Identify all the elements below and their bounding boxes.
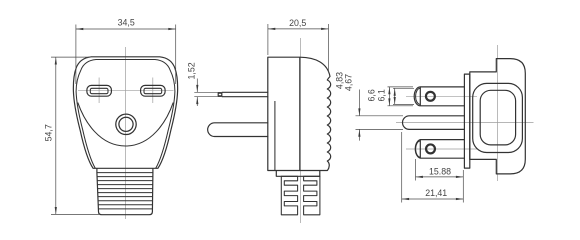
dimension 6,6 <box>366 87 413 106</box>
plug body inner contour view1 <box>76 60 175 169</box>
strain relief ribs view1 <box>97 173 153 209</box>
svg-text:15.88: 15.88 <box>429 167 451 177</box>
strain relief view1 outline <box>97 168 153 214</box>
ext line left 34,5 <box>75 25 77 85</box>
dimension 34,5 <box>76 17 176 84</box>
arrow bottom 6,6 <box>388 98 390 105</box>
dimension 21,41 <box>402 132 464 203</box>
svg-text:54,7: 54,7 <box>44 124 54 141</box>
svg-text:20,5: 20,5 <box>289 18 306 28</box>
seal inner rounded square view3 <box>480 90 515 145</box>
arrow top 6,6 <box>388 87 390 94</box>
arrow lower 4,83 <box>358 129 360 136</box>
arrow top 54,7 <box>55 57 57 64</box>
centerline vertical view1 <box>125 47 127 219</box>
svg-text:6,6: 6,6 <box>366 89 376 101</box>
right slot outer <box>141 85 166 96</box>
arrow right 21,41 <box>456 198 463 200</box>
dim line 15,88 <box>416 176 464 178</box>
ext line top 54,7 <box>51 56 91 58</box>
dim line 34,5 <box>76 28 176 30</box>
ground hole outer circle <box>116 114 136 134</box>
ext line bottom 54,7 <box>51 213 100 215</box>
dimension 54,7 <box>44 57 101 214</box>
ext line right 15,88 / 21,41 plate edge <box>462 170 464 203</box>
ext line top 6,6 <box>388 86 414 88</box>
upper blade top view <box>414 87 464 106</box>
inner face U-curve view1 <box>78 103 173 146</box>
svg-text:34,5: 34,5 <box>118 17 135 27</box>
ground pin top view <box>403 116 465 130</box>
centerline upper blade view3 <box>406 95 477 97</box>
blade side view <box>218 92 268 96</box>
lower blade cap inner arc <box>416 141 421 157</box>
ext line left 20,5 <box>267 24 269 55</box>
dim line upper 1,52 <box>196 79 198 93</box>
dim line upper 4,83 <box>358 90 360 116</box>
ext line left 15,88 <box>415 159 417 181</box>
centerline pin view3 <box>396 122 534 124</box>
arrow left 34,5 <box>76 28 83 30</box>
ext line top 1,52 <box>194 91 221 93</box>
plug body outline view2 <box>268 57 331 170</box>
arrow left 15,88 <box>416 176 423 178</box>
left slot outer <box>87 85 112 96</box>
dimension 20,5 <box>268 18 329 72</box>
lower blade hole <box>426 144 435 153</box>
dim line 21,41 <box>402 198 464 200</box>
dim line 6,6 <box>388 87 390 106</box>
dimension 1,52 <box>186 62 221 106</box>
arrow bottom 54,7 <box>55 207 57 214</box>
plug body outer outline view1 <box>73 57 177 169</box>
upper blade cap inner arc <box>416 88 421 104</box>
centerline right slot <box>152 78 154 104</box>
arrow left 20,5 <box>268 28 275 30</box>
right slot inner <box>144 88 162 93</box>
upper blade hole <box>426 92 435 101</box>
dimension 15,88 <box>416 159 464 203</box>
arrow top 6,1 <box>394 88 396 95</box>
ext line right 34,5 <box>175 25 177 85</box>
ext line top 4,83 <box>356 115 404 117</box>
lower blade top view <box>415 140 464 159</box>
dimension 4,83 / 4,67 <box>334 72 403 141</box>
arrow bottom 6,1 <box>394 97 396 104</box>
dimension 6,1 <box>376 88 414 104</box>
strain relief left comb side view <box>281 176 297 215</box>
centerline horizontal through slots view1 <box>78 89 174 91</box>
ext line right 20,5 <box>328 24 330 72</box>
svg-text:1,52: 1,52 <box>186 62 196 79</box>
seal outer rounded square view3 <box>473 83 523 152</box>
arrow right 34,5 <box>168 28 175 30</box>
centerline lower blade view3 <box>406 148 477 150</box>
svg-text:4,67: 4,67 <box>344 74 354 91</box>
centerline vertical view2 <box>299 38 301 223</box>
centerline left slot <box>98 78 100 104</box>
face plate view3 <box>464 74 469 168</box>
svg-text:6,1: 6,1 <box>376 89 386 101</box>
ground pin side view <box>208 123 269 137</box>
arrow lower 1,52 <box>196 97 198 104</box>
dim line 6,1 <box>394 88 396 104</box>
ext line left 21,41 <box>401 132 403 203</box>
arrow left 21,41 <box>402 198 409 200</box>
strain relief right comb side view <box>304 176 320 215</box>
mold parting edge view2 <box>299 57 301 170</box>
ext line bottom 6,6 <box>388 105 414 107</box>
dim line lower 4,83 <box>358 129 360 140</box>
arrow right 15,88 <box>456 176 463 178</box>
arrow upper 1,52 <box>196 85 198 92</box>
dim line lower 1,52 <box>196 97 198 106</box>
ground hole inner circle <box>119 117 133 131</box>
ext line bottom 4,83 <box>356 128 404 130</box>
strain relief flange side view <box>276 171 320 177</box>
left slot inner <box>90 88 108 93</box>
dim line 20,5 <box>268 28 329 30</box>
arrow upper 4,83 <box>358 108 360 115</box>
arrow right 20,5 <box>321 28 328 30</box>
centerline vertical view3 <box>496 45 498 181</box>
body outline view3 <box>470 59 526 174</box>
dim line 54,7 <box>55 57 57 214</box>
inner face line view2 <box>274 101 276 171</box>
svg-text:21,41: 21,41 <box>425 188 447 198</box>
ext tick top 6,1 <box>393 87 414 89</box>
ext line bottom 1,52 <box>194 96 221 98</box>
ext tick bottom 6,1 <box>393 103 414 105</box>
